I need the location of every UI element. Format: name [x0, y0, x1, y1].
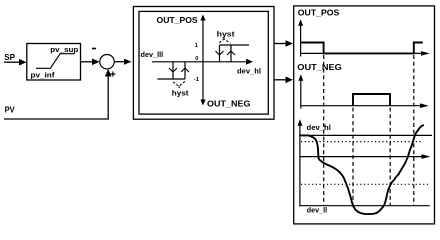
comparator horizontal axis — [152, 61, 247, 63]
plot3 upper hysteresis dotted line — [301, 141, 422, 143]
comparator vertical axis — [202, 20, 204, 101]
plus sign — [110, 73, 115, 75]
plot1 vertical axis — [300, 25, 302, 57]
minus sign — [92, 48, 96, 50]
hysteresis step positive — [219, 45, 221, 62]
svg-text:OUT_POS: OUT_POS — [157, 16, 199, 25]
plot1 OUT_POS trace — [301, 43, 423, 54]
svg-text:dev_ll: dev_ll — [307, 206, 327, 215]
summing junction — [100, 55, 114, 69]
svg-text:OUT_NEG: OUT_NEG — [207, 100, 251, 109]
plot3 time axis — [300, 156, 422, 158]
wire SP input — [4, 61, 20, 63]
svg-text:OUT_POS: OUT_POS — [298, 9, 340, 18]
wire OUT_POS output — [274, 43, 286, 45]
event dashed line 1 — [323, 55, 325, 206]
comparator block outer frame — [133, 7, 274, 120]
svg-text:-1: -1 — [194, 77, 200, 83]
svg-text:hyst: hyst — [217, 30, 236, 39]
comparator block inner frame — [139, 11, 268, 114]
event dashed line 4 — [413, 55, 415, 206]
wire summer to comparator — [114, 61, 125, 63]
svg-text:dev_hl: dev_hl — [307, 123, 331, 132]
svg-text:dev_lll: dev_lll — [141, 50, 164, 59]
svg-text:SP: SP — [4, 52, 15, 62]
plot3 dev_hl threshold line — [299, 134, 432, 136]
event dashed line 2 — [352, 108, 354, 206]
wire block to summer — [81, 61, 93, 63]
wire OUT_NEG output — [274, 79, 286, 81]
svg-text:OUT_NEG: OUT_NEG — [297, 63, 342, 72]
svg-text:0: 0 — [195, 56, 198, 62]
plot2 vertical axis — [300, 80, 302, 109]
plot3 deviation curve — [300, 125, 423, 214]
svg-text:PV: PV — [5, 104, 15, 114]
plot3 vertical axis — [299, 125, 301, 206]
plot1 time axis — [301, 52, 422, 54]
plot2 OUT_NEG trace — [353, 94, 390, 106]
event dashed line 3 — [389, 108, 391, 206]
plot3 dev_ll threshold line — [299, 205, 430, 207]
hysteresis step negative — [172, 62, 174, 79]
svg-text:pv_sup: pv_sup — [50, 45, 78, 54]
limiter block (pv_inf/pv_sup) — [27, 44, 81, 81]
svg-text:1: 1 — [195, 43, 199, 49]
svg-text:dev_hl: dev_hl — [237, 67, 261, 76]
plot2 time axis — [301, 105, 421, 107]
svg-text:hyst: hyst — [172, 89, 189, 98]
svg-text:pv_inf: pv_inf — [31, 71, 56, 80]
timing panel frame — [294, 6, 435, 224]
wire PV input — [4, 76, 108, 119]
plot3 lower hysteresis dotted line — [301, 183, 430, 185]
